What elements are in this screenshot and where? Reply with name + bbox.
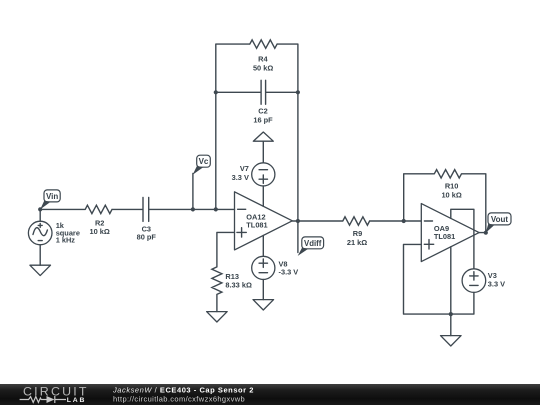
- svg-text:-3.3 V: -3.3 V: [279, 268, 299, 277]
- svg-text:10 kΩ: 10 kΩ: [441, 191, 461, 200]
- svg-text:R10: R10: [445, 182, 459, 191]
- svg-text:TL081: TL081: [434, 232, 455, 241]
- svg-text:16 pF: 16 pF: [253, 116, 273, 125]
- svg-text:R9: R9: [353, 229, 362, 238]
- svg-text:1 kHz: 1 kHz: [56, 236, 76, 245]
- svg-text:21 kΩ: 21 kΩ: [347, 238, 367, 247]
- svg-text:Vin: Vin: [46, 192, 58, 201]
- svg-text:C2: C2: [258, 107, 267, 116]
- svg-text:V3: V3: [488, 271, 497, 280]
- svg-text:Vout: Vout: [491, 215, 509, 224]
- svg-text:http://circuitlab.com/cxfwzx6h: http://circuitlab.com/cxfwzx6hgxvwb: [113, 395, 245, 404]
- svg-text:Vdiff: Vdiff: [304, 239, 322, 248]
- svg-text:10 kΩ: 10 kΩ: [90, 227, 110, 236]
- svg-text:50 kΩ: 50 kΩ: [253, 64, 273, 73]
- svg-text:8.33 kΩ: 8.33 kΩ: [225, 280, 252, 289]
- svg-text:LAB: LAB: [67, 397, 86, 404]
- svg-text:JacksenW / ECE403 - Cap Sensor: JacksenW / ECE403 - Cap Sensor 2: [112, 385, 254, 394]
- svg-text:R4: R4: [258, 55, 268, 64]
- svg-text:V7: V7: [240, 164, 249, 173]
- svg-text:Vc: Vc: [199, 157, 209, 166]
- svg-text:3.3 V: 3.3 V: [232, 173, 249, 182]
- svg-text:80 pF: 80 pF: [137, 232, 157, 241]
- svg-text:3.3 V: 3.3 V: [488, 280, 505, 289]
- svg-text:TL081: TL081: [246, 221, 267, 230]
